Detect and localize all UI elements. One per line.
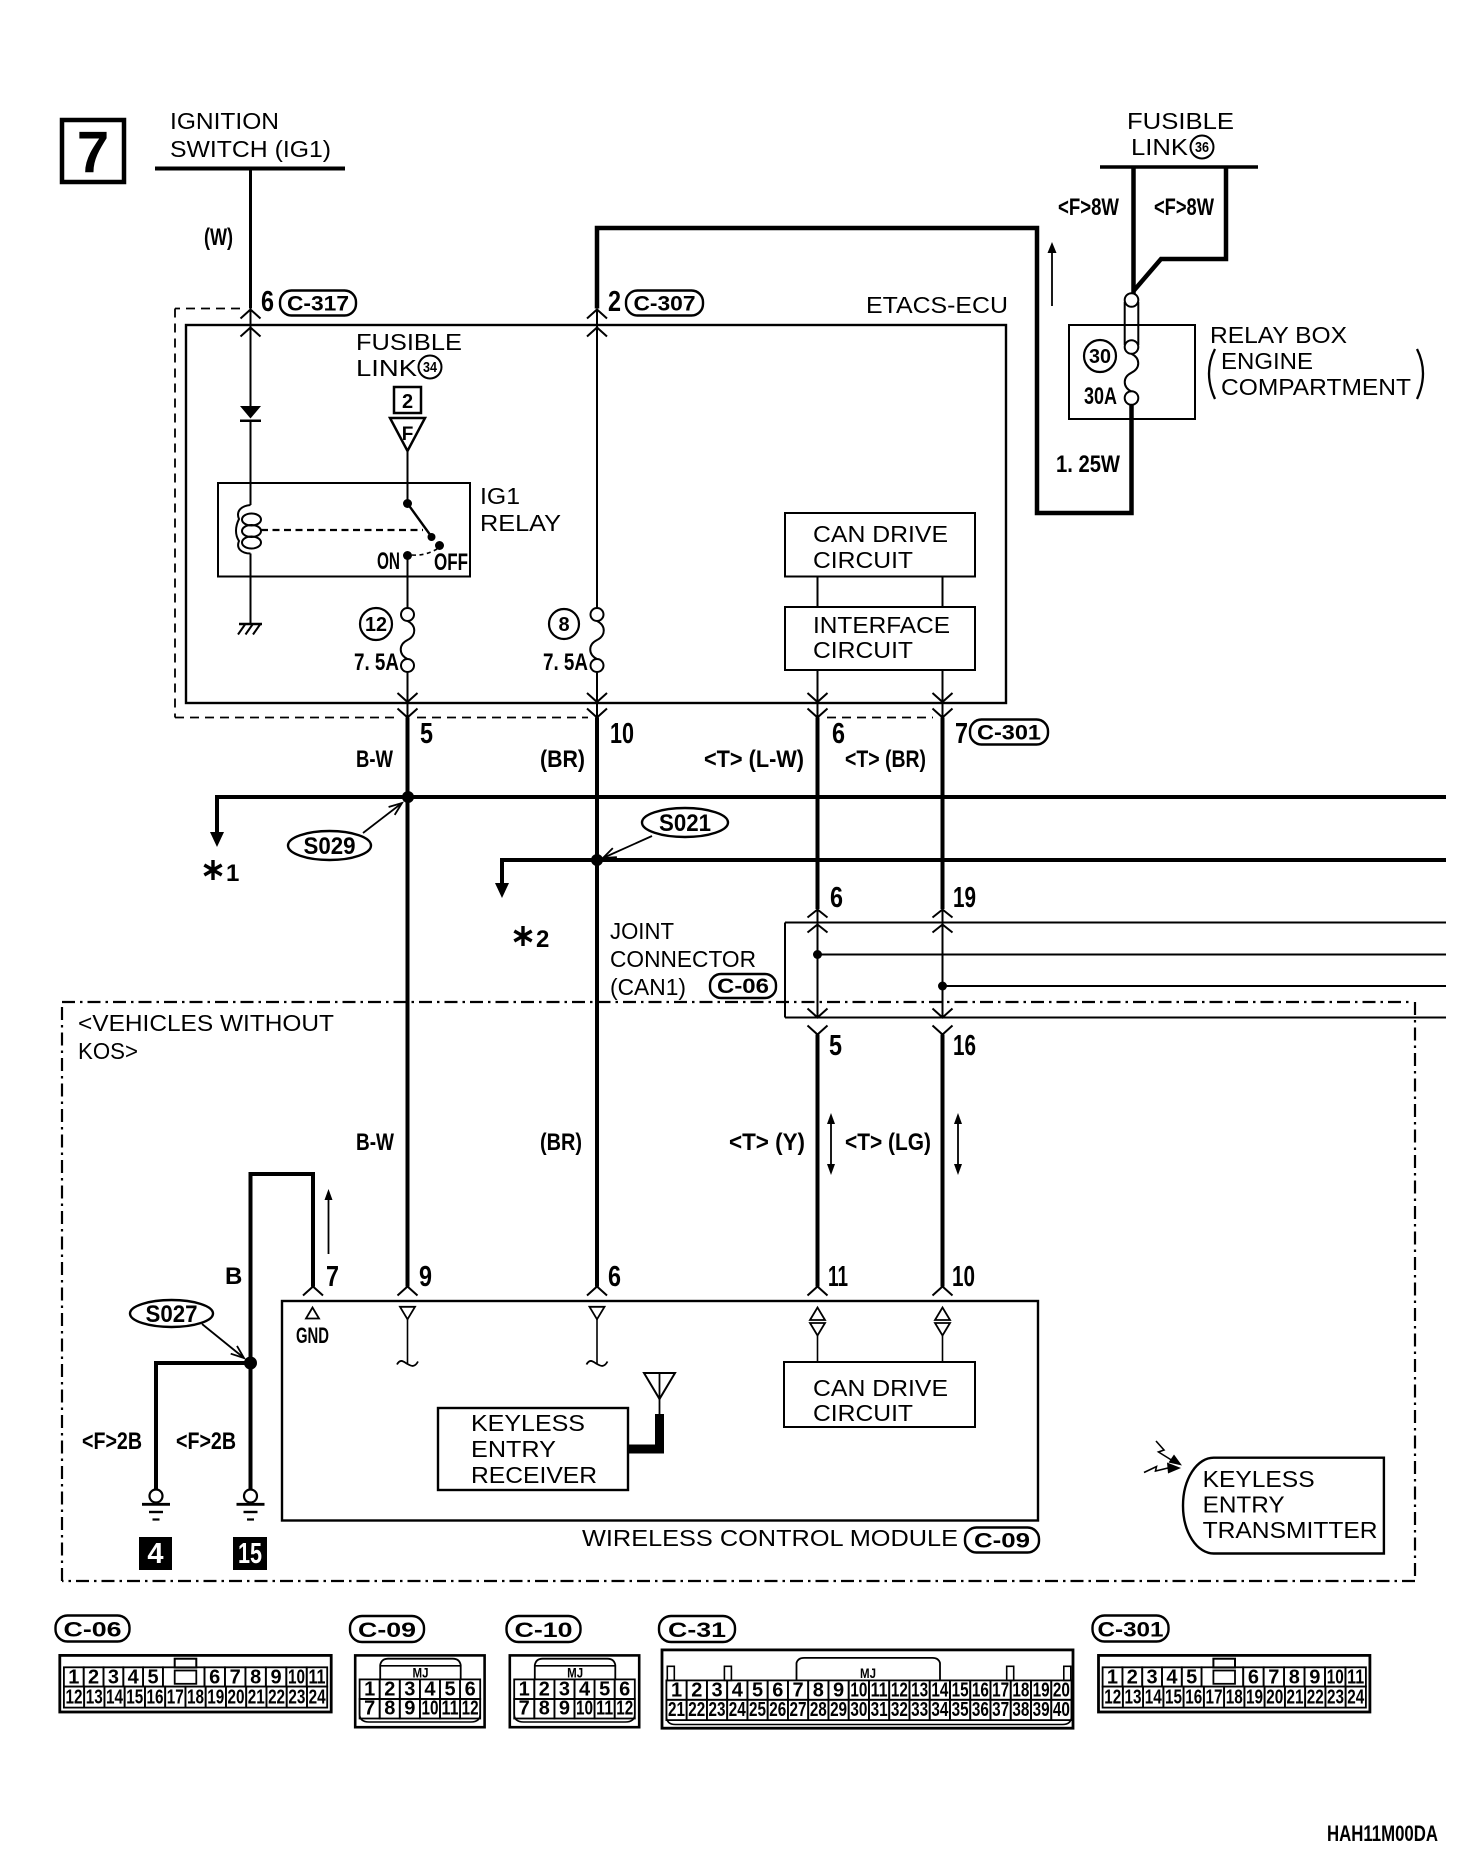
svg-text:RELAY: RELAY: [480, 510, 561, 536]
wire C-317 to diode: [250, 310, 252, 407]
svg-text:CAN DRIVE: CAN DRIVE: [813, 1375, 948, 1401]
svg-text:32: 32: [891, 1699, 908, 1721]
svg-text:COMPARTMENT: COMPARTMENT: [1221, 374, 1411, 400]
svg-text:FUSIBLE: FUSIBLE: [1127, 108, 1234, 134]
svg-text:7. 5A: 7. 5A: [354, 649, 399, 676]
svg-text:16: 16: [147, 1687, 164, 1709]
svg-text:8: 8: [558, 614, 569, 636]
WCM pin 6: [587, 1287, 607, 1296]
svg-text:10: 10: [850, 1679, 867, 1701]
svg-text:<F>2B: <F>2B: [82, 1428, 142, 1455]
svg-text:31: 31: [871, 1699, 888, 1721]
svg-text:15: 15: [126, 1687, 143, 1709]
WCM pin 11: [808, 1287, 828, 1296]
connector C-317 pin 6: [241, 310, 261, 319]
WCM pin 9: [398, 1287, 418, 1296]
joint connector internal wires: [817, 910, 819, 1018]
connector pinout C-09: [355, 1655, 484, 1727]
svg-text:RELAY BOX: RELAY BOX: [1210, 322, 1347, 348]
svg-text:16: 16: [972, 1679, 989, 1701]
svg-text:5: 5: [829, 1030, 842, 1062]
wire CAN BR vertical upper: [941, 718, 945, 910]
svg-text:HAH11M00DA: HAH11M00DA: [1327, 1821, 1438, 1846]
CAN drive circuit box (WCM): [784, 1362, 975, 1427]
svg-text:C-06: C-06: [717, 975, 769, 998]
double arrow 1: [830, 1122, 832, 1166]
CAN pin symbol 10: [935, 1308, 950, 1321]
svg-text:37: 37: [992, 1699, 1009, 1721]
svg-text:<F>2B: <F>2B: [176, 1428, 236, 1455]
svg-text:38: 38: [1012, 1699, 1029, 1721]
svg-text:C-09: C-09: [974, 1530, 1030, 1553]
svg-text:28: 28: [810, 1699, 827, 1721]
svg-text:11: 11: [871, 1679, 888, 1701]
svg-text:KOS>: KOS>: [78, 1038, 138, 1064]
svg-text:17: 17: [992, 1679, 1009, 1701]
diode: [240, 406, 261, 419]
wire (BR) vertical: [595, 718, 599, 1287]
svg-text:20: 20: [1053, 1679, 1070, 1701]
svg-text:11: 11: [828, 1261, 848, 1293]
svg-text:12: 12: [462, 1698, 479, 1720]
svg-text:8: 8: [384, 1698, 395, 1720]
connector label C-31: [659, 1616, 735, 1642]
svg-text:2: 2: [88, 1666, 99, 1688]
receiver pin symbol 9: [400, 1307, 415, 1320]
svg-text:F: F: [402, 424, 414, 445]
svg-text:6: 6: [830, 882, 843, 914]
svg-text:24: 24: [309, 1687, 327, 1709]
svg-text:25: 25: [749, 1699, 766, 1721]
CAN drive circuit box (ETACS): [785, 513, 975, 577]
svg-text:C-06: C-06: [64, 1619, 122, 1642]
svg-text:29: 29: [830, 1699, 847, 1721]
CAN pin symbol 11: [810, 1308, 825, 1321]
wire diode to relay coil: [250, 422, 252, 505]
receiver antenna: [644, 1373, 675, 1399]
GND pin symbol: [306, 1308, 319, 1319]
IG1 relay box: [218, 483, 470, 577]
vehicles without KOS dash-dot box: [62, 1001, 1413, 1003]
joint connector pins 6/19: [808, 910, 828, 918]
svg-text:7: 7: [77, 120, 109, 185]
svg-text:20: 20: [228, 1687, 245, 1709]
svg-text:22: 22: [268, 1687, 285, 1709]
svg-text:36: 36: [1195, 139, 1209, 156]
svg-text:4: 4: [732, 1679, 744, 1701]
svg-text:9: 9: [271, 1666, 282, 1688]
connector pinout C-301: [1099, 1655, 1370, 1712]
svg-text:1: 1: [671, 1679, 682, 1701]
svg-text:<T> (Y): <T> (Y): [729, 1129, 805, 1156]
connector label C-09: [350, 1616, 424, 1642]
svg-text:FUSIBLE: FUSIBLE: [356, 329, 462, 355]
svg-text:10: 10: [952, 1261, 975, 1293]
relay actuation dashed link: [261, 529, 423, 531]
wire (W) ignition feed: [249, 170, 252, 309]
svg-text:S021: S021: [659, 810, 711, 837]
svg-text:10: 10: [288, 1666, 305, 1688]
svg-text:2: 2: [536, 926, 549, 953]
svg-text:27: 27: [790, 1699, 807, 1721]
svg-text:23: 23: [288, 1687, 305, 1709]
svg-text:10: 10: [421, 1698, 438, 1720]
svg-text:ENGINE: ENGINE: [1221, 348, 1313, 374]
svg-text:13: 13: [86, 1687, 103, 1709]
ETACS pin 5 (C-301): [398, 693, 418, 702]
svg-text:18: 18: [1012, 1679, 1029, 1701]
keyless entry receiver box: [438, 1408, 628, 1490]
svg-text:TRANSMITTER: TRANSMITTER: [1203, 1517, 1378, 1543]
svg-text:40: 40: [1053, 1699, 1070, 1721]
svg-text:<T> (L-W): <T> (L-W): [704, 746, 804, 773]
svg-text:17: 17: [167, 1687, 184, 1709]
svg-text:C-301: C-301: [977, 722, 1041, 745]
up arrow on feed wire: [1051, 252, 1053, 306]
fuse 12: [401, 608, 414, 621]
svg-text:CIRCUIT: CIRCUIT: [813, 637, 913, 663]
svg-text:IG1: IG1: [480, 483, 520, 509]
svg-text:CONNECTOR: CONNECTOR: [610, 946, 756, 972]
svg-text:8: 8: [813, 1679, 824, 1701]
svg-text:(BR): (BR): [540, 746, 585, 773]
svg-text:S027: S027: [146, 1301, 198, 1328]
WCM pin 7: [303, 1287, 323, 1296]
svg-text:3: 3: [108, 1666, 119, 1688]
ETACS dashed enclosure: [175, 308, 240, 310]
svg-text:6: 6: [608, 1261, 621, 1293]
svg-text:B-W: B-W: [356, 746, 393, 773]
junction S027 dot: [244, 1357, 257, 1370]
interface circuit box: [785, 607, 975, 670]
splice S021: [642, 808, 728, 837]
svg-text:10: 10: [610, 718, 634, 750]
svg-text:2: 2: [608, 286, 621, 318]
ETACS-ECU box: [186, 325, 1006, 703]
svg-text:7: 7: [792, 1679, 803, 1701]
fusible link 34 symbol box 2: [394, 387, 421, 413]
connector label C-06: [56, 1616, 130, 1642]
svg-text:(BR): (BR): [540, 1129, 582, 1156]
svg-text:2: 2: [691, 1679, 702, 1701]
svg-text:18: 18: [187, 1687, 204, 1709]
svg-text:9: 9: [833, 1679, 844, 1701]
svg-text:24: 24: [729, 1699, 747, 1721]
ground right: [244, 1490, 257, 1503]
connector pinout C-10: [510, 1655, 639, 1727]
svg-text:LINK: LINK: [356, 355, 418, 381]
wire relay switch to fuse 12: [407, 556, 409, 609]
svg-text:19: 19: [207, 1687, 224, 1709]
signal arrows: [1156, 1441, 1173, 1461]
svg-text:8: 8: [250, 1666, 261, 1688]
svg-text:30: 30: [1089, 346, 1111, 368]
svg-text:B-W: B-W: [356, 1129, 394, 1156]
svg-text:C-317: C-317: [287, 293, 349, 316]
ETACS pin 10 (C-301): [587, 693, 607, 702]
CAN bus wire 2: [502, 860, 1446, 884]
svg-text:KEYLESS: KEYLESS: [1203, 1466, 1315, 1492]
junction S021 dot: [591, 854, 603, 866]
wires interface to pins 6/7: [817, 670, 819, 718]
svg-text:14: 14: [106, 1687, 124, 1709]
svg-text:13: 13: [911, 1679, 928, 1701]
ground pin 15: [233, 1537, 267, 1570]
svg-text:C-09: C-09: [358, 1619, 416, 1642]
page number box 7: [62, 120, 124, 182]
svg-text:15: 15: [238, 1538, 262, 1570]
svg-text:30A: 30A: [1084, 383, 1117, 410]
svg-text:KEYLESS: KEYLESS: [471, 1410, 585, 1436]
relay switch: [403, 499, 412, 508]
svg-text:JOINT: JOINT: [610, 918, 674, 944]
svg-text:INTERFACE: INTERFACE: [813, 612, 950, 638]
svg-text:CIRCUIT: CIRCUIT: [813, 1400, 913, 1426]
connector C-307 pin 2: [587, 310, 607, 319]
svg-text:ENTRY: ENTRY: [1203, 1492, 1285, 1518]
svg-text:6: 6: [209, 1666, 220, 1688]
keyless entry transmitter: [1183, 1458, 1384, 1554]
ground left: [150, 1490, 163, 1503]
ETACS pin 7 (C-301): [933, 693, 953, 702]
svg-text:(W): (W): [204, 224, 233, 251]
wire fusible link to relay switch: [407, 451, 409, 504]
ignition switch bus bar: [155, 167, 345, 171]
fuse 8: [591, 608, 604, 621]
svg-text:35: 35: [952, 1699, 969, 1721]
connector pinout C-31: [662, 1650, 1073, 1728]
svg-text:WIRELESS CONTROL MODULE: WIRELESS CONTROL MODULE: [582, 1525, 958, 1551]
svg-text:6: 6: [772, 1679, 783, 1701]
power feed wire from relay box to C-307: [597, 228, 1132, 513]
wire B-W vertical: [406, 718, 410, 1287]
wire B with corner: [251, 1174, 314, 1490]
connector label C-10: [507, 1616, 581, 1642]
svg-text:36: 36: [972, 1699, 989, 1721]
svg-text:23: 23: [709, 1699, 726, 1721]
wire F-8W right: [1134, 168, 1227, 291]
svg-text:1. 25W: 1. 25W: [1056, 451, 1120, 478]
svg-text:7: 7: [230, 1666, 241, 1688]
svg-text:LINK: LINK: [1131, 134, 1189, 160]
wire CAN L-W vertical upper: [816, 718, 820, 910]
svg-text:OFF: OFF: [434, 549, 468, 576]
svg-text:19: 19: [1033, 1679, 1050, 1701]
svg-text:39: 39: [1033, 1699, 1050, 1721]
splice S027: [130, 1300, 213, 1327]
receiver pin symbol 6: [590, 1307, 605, 1320]
svg-text:C-301: C-301: [1098, 1619, 1164, 1642]
fusible link 34 triangle F: [390, 418, 425, 451]
svg-text:<T> (BR): <T> (BR): [845, 746, 926, 773]
svg-text:30: 30: [850, 1699, 867, 1721]
svg-text:15: 15: [952, 1679, 969, 1701]
svg-text:21: 21: [248, 1687, 265, 1709]
svg-text:S029: S029: [304, 833, 356, 860]
svg-text:9: 9: [404, 1698, 415, 1720]
svg-text:11: 11: [442, 1698, 459, 1720]
joint connector pins 5/16: [808, 1009, 828, 1018]
svg-text:(CAN1): (CAN1): [610, 974, 686, 1000]
relay coil: [236, 505, 251, 554]
svg-text:SWITCH (IG1): SWITCH (IG1): [170, 136, 331, 162]
wire fuse 8 to pin 10: [596, 672, 598, 718]
svg-text:ENTRY: ENTRY: [471, 1436, 556, 1462]
wireless control module box: [282, 1301, 1038, 1521]
svg-text:34: 34: [931, 1699, 949, 1721]
ETACS pin 6 (C-301): [808, 693, 828, 702]
chassis ground (relay coil): [239, 623, 262, 626]
fusible link 36 bus bar: [1100, 165, 1258, 169]
wire relay coil to ground: [250, 554, 252, 625]
svg-text:GND: GND: [296, 1323, 329, 1348]
svg-text:7: 7: [326, 1261, 339, 1293]
WCM pin 10: [933, 1287, 953, 1296]
wire CAN Y vertical lower: [816, 1035, 820, 1287]
svg-text:5: 5: [420, 718, 433, 750]
joint connector (CAN1) box: [785, 922, 1446, 924]
wire fuse 12 to pin 5: [407, 672, 409, 718]
CAN bus wire 1: [217, 797, 1446, 833]
svg-text:CIRCUIT: CIRCUIT: [813, 547, 913, 573]
svg-text:6: 6: [832, 718, 845, 750]
svg-text:5: 5: [752, 1679, 763, 1701]
svg-text:C-10: C-10: [515, 1619, 573, 1642]
svg-text:C-31: C-31: [668, 1619, 726, 1642]
svg-text:11: 11: [308, 1666, 325, 1688]
wire to left ground: [156, 1363, 251, 1490]
svg-text:7. 5A: 7. 5A: [543, 649, 588, 676]
svg-text:3: 3: [711, 1679, 722, 1701]
fusible link 30 symbol: [1125, 293, 1139, 307]
svg-text:4: 4: [128, 1666, 140, 1688]
svg-text:<F>8W: <F>8W: [1058, 194, 1119, 221]
svg-text:33: 33: [911, 1699, 928, 1721]
svg-text:26: 26: [769, 1699, 786, 1721]
svg-text:6: 6: [261, 286, 274, 318]
svg-text:ON: ON: [377, 548, 400, 575]
svg-text:B: B: [225, 1263, 242, 1290]
svg-text:<VEHICLES WITHOUT: <VEHICLES WITHOUT: [78, 1010, 334, 1036]
svg-text:7: 7: [364, 1698, 375, 1720]
splice S029: [288, 831, 371, 860]
connector pinout C-06: [60, 1655, 331, 1712]
wire C-307 to fuse 8: [596, 310, 598, 609]
svg-text:<F>8W: <F>8W: [1154, 194, 1214, 221]
svg-text:7: 7: [955, 718, 968, 750]
svg-text:14: 14: [931, 1679, 949, 1701]
svg-text:RECEIVER: RECEIVER: [471, 1462, 597, 1488]
svg-text:22: 22: [688, 1699, 705, 1721]
double arrow 2: [957, 1122, 959, 1166]
svg-text:12: 12: [365, 614, 387, 636]
svg-text:19: 19: [953, 882, 976, 914]
svg-text:ETACS-ECU: ETACS-ECU: [866, 292, 1008, 318]
ground pin 4: [139, 1537, 172, 1570]
junction S029 dot: [402, 791, 414, 803]
relay box outline: [1069, 325, 1195, 419]
svg-text:C-307: C-307: [634, 293, 696, 316]
svg-text:2: 2: [402, 391, 413, 413]
svg-text:IGNITION: IGNITION: [170, 108, 279, 134]
svg-text:16: 16: [953, 1030, 976, 1062]
svg-text:5: 5: [147, 1666, 158, 1688]
svg-text:21: 21: [668, 1699, 685, 1721]
wire CAN LG vertical lower: [941, 1035, 945, 1287]
wires CAN drive to interface: [817, 577, 819, 608]
svg-text:1: 1: [68, 1666, 79, 1688]
wire F-8W left: [1131, 168, 1136, 294]
svg-text:34: 34: [423, 359, 438, 376]
svg-text:<T> (LG): <T> (LG): [845, 1129, 931, 1156]
svg-text:12: 12: [66, 1687, 83, 1709]
up arrow beside wire 7: [328, 1198, 330, 1254]
svg-text:12: 12: [891, 1679, 908, 1701]
svg-text:CAN DRIVE: CAN DRIVE: [813, 521, 948, 547]
svg-text:9: 9: [419, 1261, 432, 1293]
connector label C-301: [1093, 1616, 1169, 1642]
svg-text:1: 1: [226, 860, 239, 887]
svg-text:4: 4: [147, 1538, 163, 1570]
